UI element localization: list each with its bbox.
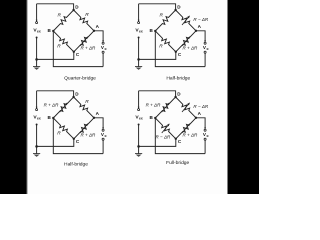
bridge4 (full): wire V_ex+ to top rail [138,91,140,109]
svg-text:ex: ex [37,30,41,34]
bridge1 (quarter): resistor R (arm B-C) [53,31,74,52]
bridge2 (half): V_ex&#8722; terminal [138,37,140,39]
bridge3 (half): wire node A to V_o+ [94,118,103,129]
svg-text:R + ΔR: R + ΔR [80,132,96,137]
bridge4 (full): wire junction to ground [138,146,140,153]
svg-text:ex: ex [139,117,143,121]
bridge4 (full): wire top rail to node D [139,91,176,97]
bridge2 (half): wire top rail to node D [139,4,176,10]
bridge2 (half): ground junction node [137,58,140,61]
svg-text:o: o [207,47,209,51]
svg-text:R + ΔR: R + ΔR [44,103,60,108]
svg-text:R + ΔR: R + ΔR [182,45,198,50]
bridge1 (quarter): wire node C to ground junction [37,52,74,60]
bridge2 (half): V_o&#8722; terminal [204,51,206,53]
svg-text:R: R [57,44,61,50]
bridge1 (quarter): node B [52,30,54,32]
bridge2 (half): resistor R (arm B-D) [155,10,175,31]
svg-text:R + ΔR: R + ΔR [146,103,162,108]
bridge3 (half): wire top rail to node D [37,91,74,97]
bridge3 (half): V_ex+ terminal arrow [36,107,38,109]
bridge3 (half): node D [72,96,74,98]
bridge3 (half): wire V_ex&#8722; to ground junction [36,125,38,147]
bridge4 (full): node C [175,138,177,140]
bridge3 (half): node B [52,117,54,119]
bridge1 (quarter): wire V_o&#8722; to bottom rail [102,53,104,66]
bridge1 (quarter): V_o+ terminal [102,40,104,42]
svg-text:Full-bridge: Full-bridge [166,160,189,166]
bridge1 (quarter): ground [33,66,40,68]
bridge4 (full): resistor R &#8722; &#916;R (arm B-C) [155,118,176,139]
svg-text:Half-bridge: Half-bridge [64,162,88,168]
bridge2 (half): wire V_o&#8722; to bottom rail [204,53,206,66]
bridge2 (half): wire junction to ground [138,59,140,66]
bridge4 (full): resistor R + &#916;R (arm B-D) [155,97,175,118]
bridge4 (full): wire node B to bottom rail to V_o [155,118,205,154]
bridge2 (half): resistor R (arm B-C) [155,31,176,52]
bridge1 (quarter): V_ex+ terminal [36,22,38,24]
bridge2 (half): node C [175,51,177,53]
svg-text:R − ΔR: R − ΔR [155,134,171,139]
bridge1 (quarter): resistor R (arm D-A) [74,10,94,31]
bridge3 (half): V_ex+ terminal [36,109,38,111]
bridge3 (half): resistor R + &#916;R (arm C-A) [74,118,94,139]
bridge1 (quarter): wire top rail to node D [37,4,74,10]
bridge2 (half): wire node C to ground junction [139,52,176,60]
bridge3 (half): wire node C to ground junction [37,139,74,147]
bridge3 (half): resistor R (arm B-C) [53,118,74,139]
bridge4 (full): ground [135,153,142,155]
bridge3 (half): ground [33,153,40,155]
bridge2 (half): wire V_ex+ to top rail [138,4,140,22]
svg-text:R + ΔR: R + ΔR [80,45,96,50]
svg-text:Quarter-bridge: Quarter-bridge [64,76,96,82]
svg-text:R: R [159,12,163,18]
bridge4 (full): V_ex+ terminal arrow [138,107,140,109]
svg-text:R + ΔR: R + ΔR [182,132,198,137]
bridge1 (quarter): V_ex+ terminal arrow [36,20,38,22]
bridge3 (half): V_o&#8722; terminal [102,138,104,140]
bridge1 (quarter): ground junction node [35,58,38,61]
svg-text:ex: ex [37,117,41,121]
svg-text:R: R [159,44,163,50]
bridge4 (full): wire node A to V_o+ [196,118,205,129]
svg-text:o: o [105,134,107,138]
bridge4 (full): node D [174,96,176,98]
svg-text:ex: ex [139,30,143,34]
right black sidebar [228,0,260,194]
bridge1 (quarter): node A [93,30,95,32]
bridge4 (full): V_ex&#8722; terminal [138,124,140,126]
bridge1 (quarter): wire node A to V_o+ [94,31,103,42]
bridge2 (half): wire node B to bottom rail to V_o [155,31,205,67]
bridge1 (quarter): wire V_ex&#8722; to ground junction [36,38,38,60]
bridge2 (half): resistor R + &#916;R (arm C-A) [176,31,196,52]
bridge2 (half): node A [195,30,197,32]
bridge4 (full): resistor R &#8722; &#916;R (arm D-A) [176,97,196,118]
svg-text:R: R [57,12,61,18]
svg-text:o: o [207,134,209,138]
bridge4 (full): wire V_ex&#8722; to ground junction [138,125,140,147]
svg-text:Half-bridge: Half-bridge [166,76,190,82]
bridge3 (half): node C [73,138,75,140]
bridge3 (half): wire junction to ground [36,146,38,153]
bridge2 (half): V_o+ terminal [204,40,206,42]
svg-text:R: R [85,12,89,18]
svg-text:R − ΔR: R − ΔR [193,104,209,109]
bridge4 (full): V_ex+ terminal [138,109,140,111]
bridge2 (half): ground [135,66,142,68]
bridge2 (half): wire node A to V_o+ [196,31,205,42]
bridge3 (half): resistor R (arm D-A) [74,97,94,118]
bridge4 (full): ground junction node [137,145,140,148]
left black sidebar [0,0,27,194]
bridge4 (full): V_o+ terminal [204,127,206,129]
bridge3 (half): resistor R + &#916;R (arm B-D) [53,97,73,118]
bridge1 (quarter): resistor R (arm B-D) [53,10,73,31]
svg-text:R: R [57,131,61,137]
bridge1 (quarter): wire junction to ground [36,59,38,66]
bridge1 (quarter): V_ex&#8722; terminal [36,37,38,39]
bridge3 (half): ground junction node [35,145,38,148]
bridge1 (quarter): wire node B to bottom rail to V_o [53,31,103,67]
svg-text:o: o [105,47,107,51]
svg-text:R: R [85,99,89,105]
bridge4 (full): node B [154,117,156,119]
bridge2 (half): V_ex+ terminal [138,22,140,24]
bridge3 (half): node A [93,117,95,119]
bridge1 (quarter): node D [72,9,74,11]
bridge3 (half): V_ex&#8722; terminal [36,124,38,126]
bridge3 (half): V_o+ terminal [102,127,104,129]
bridge2 (half): node D [174,9,176,11]
svg-text:R − ΔR: R − ΔR [193,17,209,22]
bridge4 (full): V_o&#8722; terminal [204,138,206,140]
bridge4 (full): node A [195,117,197,119]
bridge1 (quarter): wire V_ex+ to top rail [36,4,38,22]
bridge2 (half): V_ex+ terminal arrow [138,20,140,22]
bridge1 (quarter): V_o&#8722; terminal [102,51,104,53]
bridge3 (half): wire V_o&#8722; to bottom rail [102,140,104,153]
bridge2 (half): node B [154,30,156,32]
bridge1 (quarter): node C [73,51,75,53]
bridge3 (half): wire node B to bottom rail to V_o [53,118,103,154]
bridge4 (full): wire V_o&#8722; to bottom rail [204,140,206,153]
bridge2 (half): wire V_ex&#8722; to ground junction [138,38,140,60]
bridge4 (full): resistor R + &#916;R (arm C-A) [176,118,196,139]
bridge3 (half): wire V_ex+ to top rail [36,91,38,109]
bridge2 (half): resistor R &#8722; &#916;R (arm D-A) [176,10,196,31]
bridge4 (full): wire node C to ground junction [139,139,176,147]
bridge1 (quarter): resistor R + &#916;R (arm C-A) [74,31,94,52]
